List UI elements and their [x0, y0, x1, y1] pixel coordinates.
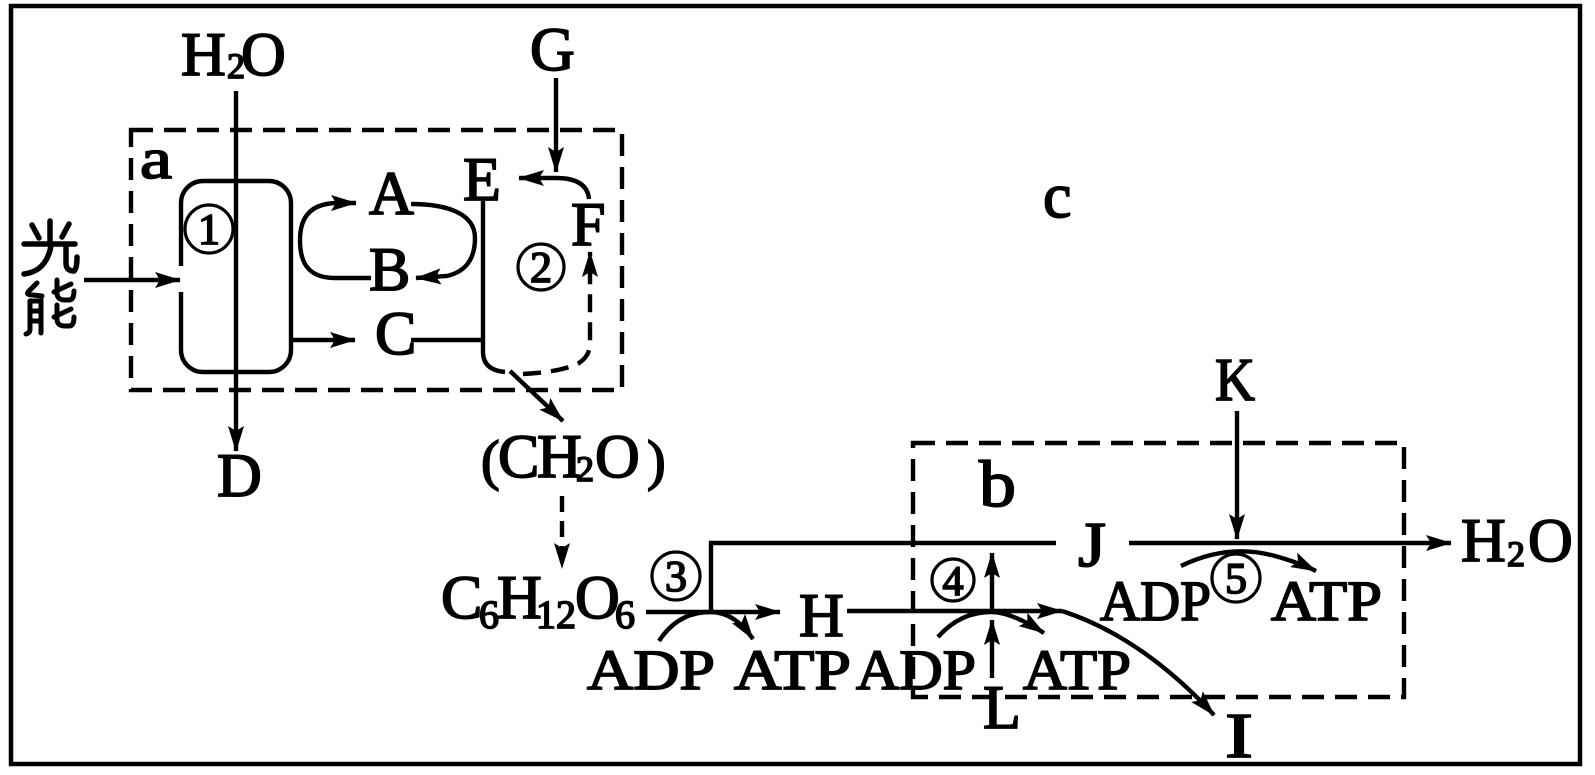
cycle arc A to B (right) — [411, 204, 475, 278]
reaction arc 4 ADP to ATP — [938, 612, 1044, 637]
gap in rounded rect left edge — [176, 266, 185, 292]
svg-text:L: L — [983, 674, 1021, 742]
svg-text:ADP: ADP — [856, 639, 976, 702]
arrow C6H12O6 to H — [646, 610, 780, 614]
curve to I — [1062, 611, 1214, 715]
svg-text:(: ( — [481, 430, 500, 492]
能 glyph (drawn) — [26, 280, 74, 334]
svg-text:ADP: ADP — [587, 639, 715, 702]
lower up arrow from L — [990, 620, 994, 678]
svg-text:6: 6 — [479, 592, 499, 637]
E vertical stem with hook — [483, 201, 505, 372]
circled 5 — [1212, 554, 1260, 603]
svg-text:6: 6 — [615, 592, 635, 637]
svg-text:3: 3 — [665, 552, 687, 601]
diagonal arrow to (CH2O) — [510, 371, 563, 421]
light energy arrow — [84, 278, 180, 282]
svg-text:a: a — [140, 126, 172, 191]
arrow rect to C — [293, 338, 355, 342]
dashed down arrow to C6H12O6 — [560, 496, 564, 568]
H2O down arrow through box a to D — [234, 91, 238, 451]
circled 2 — [518, 243, 564, 292]
svg-text:ATP: ATP — [1023, 639, 1131, 702]
thylakoid rounded rectangle — [181, 181, 291, 372]
svg-text:O: O — [1528, 507, 1573, 575]
svg-text:B: B — [369, 236, 410, 304]
svg-text:2: 2 — [530, 243, 552, 292]
svg-text:C: C — [441, 564, 482, 632]
C6H12O6 label — [441, 564, 635, 637]
svg-text:2: 2 — [576, 449, 594, 489]
G down arrow — [554, 78, 558, 172]
光 glyph (drawn) — [24, 221, 77, 274]
svg-text:4: 4 — [943, 559, 964, 605]
svg-text:1: 1 — [198, 205, 220, 254]
svg-text:G: G — [530, 16, 575, 84]
svg-text:H: H — [799, 582, 844, 650]
reaction arc 5 ADP to ATP — [1181, 551, 1316, 571]
svg-text:I: I — [1225, 700, 1253, 771]
svg-text:O: O — [241, 21, 286, 89]
svg-text:ATP: ATP — [1271, 570, 1382, 633]
svg-text:c: c — [1043, 160, 1071, 231]
svg-text:C: C — [375, 300, 416, 368]
H2O label (right) — [1461, 507, 1573, 575]
K down arrow — [1235, 411, 1239, 539]
junction line up to J — [711, 543, 1056, 612]
H2O label (top) — [181, 21, 286, 89]
svg-text:C: C — [498, 423, 539, 491]
svg-text:): ) — [647, 430, 666, 492]
svg-text:A: A — [369, 160, 414, 228]
svg-text:O: O — [595, 423, 640, 491]
arrow H to right — [847, 609, 1062, 613]
(CH2O) label — [481, 423, 666, 492]
svg-text:5: 5 — [1225, 554, 1247, 603]
svg-text:K: K — [1215, 347, 1255, 414]
dashed box a (light reactions / chloroplast region) — [131, 130, 622, 390]
svg-text:12: 12 — [536, 592, 576, 637]
arrow J to H2O — [1129, 541, 1451, 545]
svg-text:b: b — [979, 448, 1016, 521]
svg-text:2: 2 — [1507, 534, 1525, 574]
svg-text:H: H — [1461, 507, 1506, 575]
dashed box b (mitochondrion region) — [913, 443, 1404, 697]
reaction arc 3 ADP to ATP — [659, 612, 753, 641]
dashed arrow up to F — [523, 252, 590, 374]
cycle arc B to A (left) — [300, 203, 371, 278]
svg-text:D: D — [217, 442, 262, 510]
upper up arrow to J line — [990, 553, 994, 611]
svg-text:ADP: ADP — [1100, 570, 1211, 633]
circled 1 — [185, 205, 233, 254]
curved arrow from G product into E — [519, 178, 589, 199]
svg-text:O: O — [575, 564, 620, 632]
svg-text:H: H — [181, 21, 226, 89]
C to E line — [411, 338, 483, 342]
circled 4 — [932, 559, 974, 605]
circled 3 — [652, 552, 700, 601]
svg-text:F: F — [571, 191, 605, 259]
